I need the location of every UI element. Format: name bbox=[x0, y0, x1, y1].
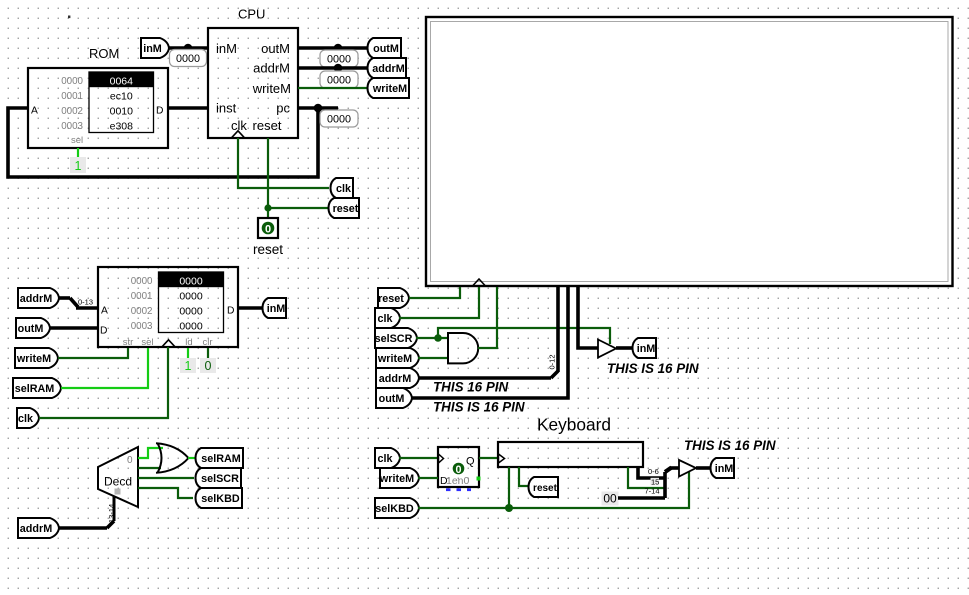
wire RAM.D->pin inM bbox=[238, 306, 262, 310]
svg-text:inM: inM bbox=[216, 41, 237, 56]
wire splitter->buffer bbox=[670, 466, 679, 470]
input pin clk bbox=[375, 308, 400, 328]
svg-text:writeM: writeM bbox=[372, 83, 407, 95]
CPU clock input triangle bbox=[232, 131, 245, 138]
junction pc bus bbox=[314, 104, 323, 113]
output pin inM (keyboard) bbox=[711, 458, 735, 478]
svg-text:addrM: addrM bbox=[379, 373, 411, 385]
svg-text:Keyboard: Keyboard bbox=[537, 415, 611, 435]
svg-text:13-14: 13-14 bbox=[107, 504, 116, 523]
svg-text:0000: 0000 bbox=[327, 75, 351, 87]
wire RAM clr stub bbox=[207, 348, 209, 358]
RAM clock triangle bbox=[162, 340, 175, 347]
svg-text:0002: 0002 bbox=[61, 106, 83, 117]
wire constant 00->splitter bbox=[618, 496, 665, 500]
junction selSCR bbox=[434, 334, 442, 342]
svg-text:0010: 0010 bbox=[110, 105, 134, 117]
output pin writeM bbox=[368, 78, 410, 98]
wire addrM->splitter 0-13 bbox=[59, 296, 70, 300]
svg-text:writeM: writeM bbox=[252, 81, 291, 96]
junction selKBD bbox=[505, 504, 513, 512]
screen display bbox=[426, 17, 953, 286]
wire OR->pin selRAM bbox=[188, 457, 195, 459]
ROM bbox=[28, 68, 168, 148]
svg-text:ld: ld bbox=[185, 337, 192, 348]
svg-text:0000: 0000 bbox=[179, 320, 203, 332]
probe addrM 0000 bbox=[320, 71, 358, 88]
svg-text:THIS IS 16 PIN: THIS IS 16 PIN bbox=[607, 361, 699, 376]
svg-text:selKBD: selKBD bbox=[375, 503, 414, 515]
wire ROM sel stub bbox=[77, 148, 79, 157]
svg-text:0003: 0003 bbox=[131, 321, 153, 332]
decoder Decd bbox=[98, 447, 138, 507]
svg-text:0000: 0000 bbox=[61, 76, 83, 87]
wire keyboard read enable->selKBD bbox=[508, 467, 510, 508]
svg-text:0001: 0001 bbox=[131, 291, 153, 302]
wire Decd.0->OR gate bbox=[138, 448, 163, 458]
svg-text:selRAM: selRAM bbox=[201, 453, 241, 465]
wire flip-flop Q->keyboard clock bbox=[479, 457, 498, 459]
input pin inM top bbox=[141, 38, 169, 58]
input pin clk (west facing) bbox=[331, 178, 354, 198]
probe outM 0000 bbox=[320, 50, 358, 67]
wire selRAM->RAM.sel bbox=[61, 348, 148, 388]
wire keyboard avail->splitter bit 15 bbox=[628, 467, 665, 488]
wire splitter->RAM.A bbox=[76, 306, 98, 310]
wire reset->screen bbox=[409, 287, 460, 298]
svg-text:selSCR: selSCR bbox=[201, 473, 239, 485]
splitter 0-13 bbox=[70, 298, 78, 307]
svg-text:sel: sel bbox=[141, 337, 153, 348]
svg-text:0000: 0000 bbox=[327, 114, 351, 126]
tri-state buffer U3 bbox=[679, 460, 696, 477]
svg-text:inM: inM bbox=[143, 43, 162, 55]
wire keyboard data->splitter bbox=[638, 467, 665, 478]
svg-text:inst: inst bbox=[216, 101, 237, 116]
input pin reset (west facing) bbox=[329, 198, 360, 218]
stray mark bbox=[68, 16, 70, 19]
input pin selRAM (RAM) bbox=[13, 378, 61, 398]
input pin addrM (decoder) bbox=[18, 518, 59, 538]
input pin selSCR bbox=[375, 328, 417, 348]
svg-text:0000: 0000 bbox=[176, 53, 200, 65]
junction outM wire bbox=[334, 44, 343, 53]
svg-text:clk: clk bbox=[377, 313, 393, 325]
svg-text:writeM: writeM bbox=[16, 353, 51, 365]
svg-text:reset: reset bbox=[253, 242, 283, 257]
svg-text:0: 0 bbox=[127, 455, 133, 466]
output pin selKBD bbox=[196, 488, 243, 508]
svg-text:0064: 0064 bbox=[110, 75, 134, 87]
svg-text:writeM: writeM bbox=[377, 353, 412, 365]
svg-text:ec10: ec10 bbox=[110, 90, 133, 102]
svg-text:outM: outM bbox=[261, 41, 290, 56]
output pin selSCR bbox=[196, 468, 242, 488]
input pin addrM bbox=[376, 368, 419, 388]
wire inM->CPU.inM bbox=[168, 46, 208, 50]
input pin writeM (RAM) bbox=[15, 348, 58, 368]
input pin clk (keyboard) bbox=[375, 448, 400, 468]
svg-text:Q: Q bbox=[466, 456, 475, 468]
svg-text:addrM: addrM bbox=[20, 293, 52, 305]
output pin inM (screen) bbox=[633, 338, 657, 358]
flip-flop floating inputs bbox=[446, 488, 451, 491]
svg-text:clk: clk bbox=[377, 453, 393, 465]
wire reset branch->pin reset bbox=[268, 207, 332, 209]
svg-text:Decd: Decd bbox=[104, 475, 132, 489]
svg-text:selRAM: selRAM bbox=[15, 383, 55, 395]
wire writeM->RAM.str bbox=[58, 348, 128, 358]
svg-text:0003: 0003 bbox=[61, 121, 83, 132]
output pin outM bbox=[368, 38, 402, 58]
input pin reset (keyboard, west facing) bbox=[529, 477, 559, 497]
screen clock triangle bbox=[473, 279, 486, 286]
wire clk->flip-flop bbox=[399, 457, 438, 459]
probe inM 0000 bbox=[170, 50, 207, 67]
wire Decd.3->pin selKBD bbox=[138, 488, 193, 498]
svg-text:D: D bbox=[100, 326, 107, 337]
svg-text:selKBD: selKBD bbox=[201, 493, 240, 505]
svg-text:reset: reset bbox=[333, 203, 359, 215]
svg-text:0-13: 0-13 bbox=[78, 298, 93, 307]
wire ROM.D->CPU.inst bbox=[168, 106, 208, 110]
junction addrM wire bbox=[334, 64, 343, 73]
svg-text:inM: inM bbox=[637, 343, 656, 355]
svg-text:0: 0 bbox=[455, 464, 461, 476]
svg-text:selSCR: selSCR bbox=[375, 333, 413, 345]
splitter 0-12 bbox=[551, 371, 558, 378]
wire splitter->screen addr bbox=[556, 287, 560, 372]
svg-text:A: A bbox=[101, 306, 108, 317]
output pin addrM bbox=[368, 58, 407, 78]
OR gate bbox=[156, 443, 189, 473]
input pin addrM (RAM) bbox=[18, 288, 59, 308]
svg-text:0000: 0000 bbox=[179, 305, 203, 317]
input pin reset bbox=[378, 288, 409, 308]
keyboard component bbox=[498, 442, 643, 467]
AND gate bbox=[448, 333, 478, 363]
splitter merge 16-bit bbox=[663, 472, 667, 498]
svg-text:0: 0 bbox=[205, 359, 212, 373]
wire writeM->AND gate bbox=[418, 357, 448, 359]
wire buffer->pin inM (keyboard) bbox=[696, 466, 710, 470]
constant 00 bbox=[602, 492, 619, 506]
svg-text:0: 0 bbox=[265, 223, 271, 235]
splitter 13-14 bbox=[107, 521, 114, 528]
svg-text:pc: pc bbox=[276, 101, 290, 116]
svg-text:inM: inM bbox=[267, 303, 286, 315]
input pin outM (RAM) bbox=[16, 318, 50, 338]
junction inM wire bbox=[184, 44, 193, 53]
constant 0 on RAM clr bbox=[200, 358, 216, 373]
wire writeM->flip-flop D bbox=[418, 477, 438, 479]
svg-text:writeM: writeM bbox=[379, 473, 414, 485]
wire CPU.writeM->pin writeM bbox=[298, 87, 368, 89]
tri-state buffer U1 bbox=[598, 340, 616, 358]
svg-text:0-12: 0-12 bbox=[548, 354, 557, 369]
decoder select marker bbox=[115, 489, 121, 495]
svg-text:reset: reset bbox=[378, 293, 404, 305]
svg-text:1: 1 bbox=[75, 159, 82, 173]
wire RAM ld stub bbox=[187, 348, 189, 358]
svg-text:THIS IS 16 PIN: THIS IS 16 PIN bbox=[684, 438, 776, 453]
D flip-flop U2 bbox=[438, 447, 479, 487]
wire selSCR->AND gate bbox=[416, 337, 448, 339]
svg-text:addrM: addrM bbox=[253, 60, 290, 75]
wire CPU.reset->constant reset bbox=[267, 138, 269, 218]
svg-text:00: 00 bbox=[603, 492, 617, 506]
svg-text:reset: reset bbox=[253, 118, 282, 133]
svg-text:clk: clk bbox=[336, 183, 352, 195]
wire keyboard clear->pin reset bbox=[519, 467, 530, 486]
input pin outM bbox=[376, 388, 412, 408]
svg-text:0-6: 0-6 bbox=[648, 467, 659, 476]
wire outM->screen data in bbox=[411, 287, 568, 398]
svg-text:THIS 16 PIN: THIS 16 PIN bbox=[433, 380, 508, 395]
svg-text:clk: clk bbox=[231, 118, 247, 133]
svg-text:0000: 0000 bbox=[179, 290, 203, 302]
wire buffer->pin inM bbox=[616, 346, 632, 350]
wire selKBD->buffer enable bbox=[418, 472, 689, 508]
svg-text:0000: 0000 bbox=[131, 276, 153, 287]
wire CPU.addrM->pin addrM bbox=[298, 66, 368, 70]
svg-text:clr: clr bbox=[202, 337, 212, 348]
svg-text:0001: 0001 bbox=[61, 91, 83, 102]
svg-text:addrM: addrM bbox=[372, 63, 404, 75]
input pin writeM bbox=[376, 348, 419, 368]
svg-text:0000: 0000 bbox=[179, 275, 203, 287]
svg-text:0002: 0002 bbox=[131, 306, 153, 317]
input pin constant reset=0 bbox=[258, 218, 278, 238]
svg-text:CPU: CPU bbox=[238, 7, 265, 22]
wire AND->screen write enable bbox=[478, 287, 497, 348]
probe PC value 0000 bbox=[320, 110, 358, 127]
svg-text:A: A bbox=[31, 106, 38, 117]
wire addrM->splitter 13-14 bbox=[59, 526, 107, 530]
wire CPU.outM->pin outM bbox=[298, 46, 368, 50]
wire selSCR->buffer enable bbox=[438, 328, 610, 344]
constant 1 on RAM ld bbox=[180, 358, 196, 373]
svg-text:e308: e308 bbox=[110, 120, 134, 132]
input pin writeM (keyboard) bbox=[380, 468, 419, 488]
wire addrM->splitter bbox=[418, 376, 551, 380]
svg-text:outM: outM bbox=[379, 393, 405, 405]
input pin clk (RAM) bbox=[17, 408, 39, 428]
CPU bbox=[208, 28, 298, 138]
wire outM->RAM.D bbox=[50, 326, 98, 330]
svg-text:15: 15 bbox=[651, 478, 659, 487]
output pin selRAM bbox=[196, 448, 244, 468]
junction reset wire bbox=[264, 204, 271, 211]
RAM bbox=[98, 267, 238, 347]
svg-text:str: str bbox=[123, 337, 134, 348]
wire Decd.2->pin selSCR bbox=[138, 477, 194, 479]
wire pc feedback bus pc->ROM.A bbox=[298, 106, 338, 110]
wire CPU.clk->pin clk bbox=[238, 138, 329, 188]
svg-text:addrM: addrM bbox=[20, 523, 52, 535]
svg-text:1en0: 1en0 bbox=[446, 475, 470, 487]
svg-text:inM: inM bbox=[715, 463, 734, 475]
input pin selKBD bbox=[375, 498, 419, 518]
svg-text:D: D bbox=[156, 106, 163, 117]
wire clk->screen bbox=[399, 287, 479, 318]
svg-text:reset: reset bbox=[533, 483, 558, 494]
svg-text:ROM: ROM bbox=[89, 46, 119, 61]
wire Decd.1->OR gate bbox=[138, 467, 161, 469]
svg-text:7-14: 7-14 bbox=[645, 487, 660, 496]
svg-text:clk: clk bbox=[18, 413, 34, 425]
svg-text:outM: outM bbox=[18, 323, 44, 335]
svg-text:THIS IS 16 PIN: THIS IS 16 PIN bbox=[433, 400, 525, 415]
flip-flop output marker bbox=[477, 477, 481, 481]
svg-text:sel: sel bbox=[71, 135, 83, 146]
svg-text:D: D bbox=[227, 306, 234, 317]
wire screen data out->buffer bbox=[578, 287, 598, 348]
svg-text:1: 1 bbox=[185, 359, 192, 373]
wire clk->RAM clock bbox=[39, 347, 168, 418]
output pin inM (RAM) bbox=[263, 298, 287, 318]
constant 1 on ROM sel bbox=[70, 157, 86, 173]
svg-text:outM: outM bbox=[373, 43, 399, 55]
